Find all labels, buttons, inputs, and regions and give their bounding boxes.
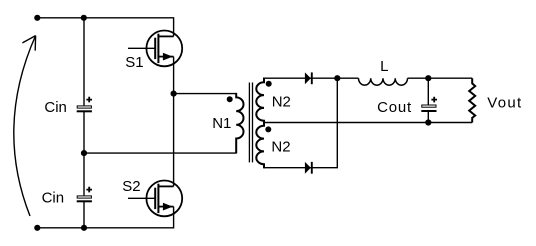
- node Cout bottom junction: [425, 119, 431, 125]
- inductor L: [359, 78, 408, 85]
- svg-text:N2: N2: [271, 139, 290, 156]
- svg-text:L: L: [380, 58, 388, 75]
- transformer core: [249, 83, 252, 163]
- diode D2 (bottom): [305, 162, 311, 174]
- node Cin midpoint junction: [81, 150, 87, 156]
- node top rail / Cin junction: [81, 15, 87, 21]
- node output (L / Cout / Vout): [425, 75, 431, 81]
- diode D1 (top): [305, 72, 311, 84]
- wire bottom rail + S2 source lead: [37, 207, 173, 228]
- transformer primary winding N1: [236, 93, 243, 154]
- svg-text:N2: N2: [272, 94, 291, 111]
- wire top rail + S1 drain lead: [37, 18, 173, 37]
- svg-text:Cin: Cin: [44, 99, 67, 116]
- wire node A to primary top: [174, 93, 237, 95]
- wire top secondary lead (to diode and node X): [264, 77, 337, 79]
- node A (S1/S2 midpoint, primary top): [171, 91, 177, 97]
- transistor S2 (MOSFET): [128, 181, 182, 217]
- capacitor Cout: [421, 78, 437, 122]
- wire Cin middle lead: [83, 111, 85, 195]
- resistor load Vout: [469, 78, 475, 122]
- transistor S1 (MOSFET): [128, 31, 182, 67]
- node top-left terminal: [34, 15, 40, 21]
- wire inductor to output node: [408, 77, 473, 79]
- svg-text:Cin: Cin: [42, 190, 65, 207]
- capacitor Cin (bottom): [77, 187, 92, 202]
- transformer secondary winding N2 (bottom): [256, 123, 264, 169]
- node N2 bottom phase dot: [265, 126, 271, 132]
- wire Cin string upper lead: [83, 18, 85, 106]
- wire bottom secondary lead (to diode and up to node X): [264, 78, 337, 168]
- svg-text:S1: S1: [125, 54, 143, 71]
- wire center tap return rail: [264, 122, 472, 124]
- wire primary return (cap midpoint to N1 bottom): [84, 152, 236, 154]
- node N2 top phase dot: [266, 81, 272, 87]
- svg-text:S2: S2: [122, 178, 140, 195]
- node bottom-left terminal: [34, 225, 40, 231]
- input arrow (curved, open head): [14, 36, 36, 216]
- node X (diode outputs / L input): [334, 75, 340, 81]
- transformer secondary winding N2 (top): [256, 78, 264, 123]
- node bottom rail / Cin junction: [81, 225, 87, 231]
- capacitor Cin (top): [77, 97, 92, 112]
- node N1 phase dot: [227, 96, 233, 102]
- svg-text:Vout: Vout: [487, 94, 522, 111]
- wire Cin lower lead: [83, 201, 85, 228]
- wire node X to inductor: [337, 77, 358, 79]
- svg-text:N1: N1: [212, 115, 231, 132]
- svg-text:Cout: Cout: [377, 99, 412, 116]
- wire S1 source to S2 drain (node A vertical): [173, 57, 175, 187]
